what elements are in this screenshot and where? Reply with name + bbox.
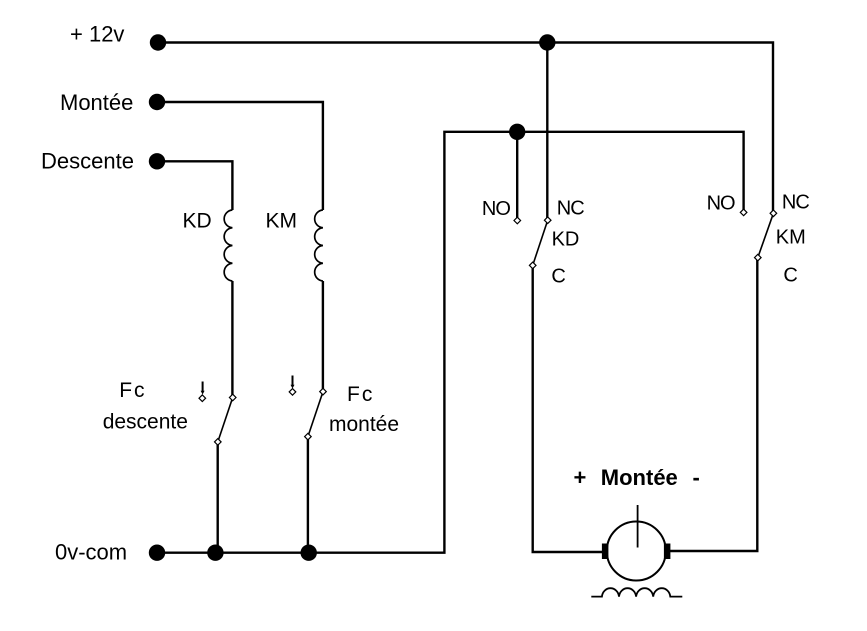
pin diamond Fc descente actuator	[199, 395, 206, 402]
switch Fc montée arm	[308, 392, 323, 437]
svg-text:+ 12v: + 12v	[70, 21, 124, 46]
wire +12v rail	[158, 43, 773, 214]
pin diamond KD NO	[514, 217, 521, 224]
motor M1 body	[607, 522, 666, 581]
svg-text:KD: KD	[552, 228, 580, 250]
wire 0v-com rail up and across to KM NO	[157, 132, 744, 553]
coil KM	[315, 210, 323, 281]
motor M1 shaft	[637, 505, 639, 548]
pin diamond Fc montée top	[320, 388, 327, 395]
wire KD C to motor left brush	[533, 265, 606, 552]
pin diamond Fc descente bottom	[215, 439, 222, 446]
svg-text:+: +	[574, 465, 587, 490]
wire KD NO stub	[516, 132, 518, 221]
svg-text:-: -	[693, 465, 700, 490]
svg-text:NO: NO	[482, 198, 510, 220]
node Montée terminal	[149, 94, 165, 110]
contact KM arm NC to C	[758, 213, 774, 257]
svg-text:KM: KM	[776, 226, 806, 248]
node Descente terminal	[149, 153, 165, 169]
node 0v-com terminal	[149, 545, 165, 561]
wire Fc descente switch to 0v junction	[216, 442, 218, 553]
wire Fc montée switch to 0v junction	[307, 437, 309, 553]
pin diamond KM C	[755, 254, 762, 261]
svg-text:0v-com: 0v-com	[55, 539, 127, 564]
svg-text:KD: KD	[183, 210, 212, 233]
wire Montée terminal to KM coil	[157, 102, 323, 210]
pin diamond Fc descente top	[229, 394, 236, 401]
junction 0v rail / KD NO	[509, 124, 525, 140]
pin diamond KM NO	[740, 209, 747, 216]
junction 0v rail / Fc montée	[301, 545, 317, 561]
pin diamond KD C	[529, 262, 536, 269]
node +12v terminal	[150, 34, 166, 50]
wire KM C to motor right brush	[667, 258, 757, 551]
wire KD coil to Fc descente switch	[231, 281, 233, 398]
svg-text:NC: NC	[557, 197, 584, 219]
svg-text:NO: NO	[707, 192, 735, 214]
wire KM coil to Fc montée switch	[322, 281, 324, 392]
svg-text:C: C	[783, 265, 797, 287]
coil KD	[224, 210, 232, 281]
pin diamond Fc montée bottom	[305, 433, 312, 440]
svg-text:descente: descente	[103, 410, 188, 433]
pin diamond KM NC	[770, 210, 777, 217]
svg-text:Fc: Fc	[119, 379, 146, 402]
svg-text:KM: KM	[266, 210, 298, 233]
actuator arrow Fc montée	[291, 376, 295, 389]
junction 0v rail / Fc descente	[207, 545, 223, 561]
pin diamond KD NC	[544, 217, 551, 224]
svg-text:NC: NC	[782, 192, 809, 214]
switch Fc descente arm	[218, 398, 233, 442]
svg-text:Fc: Fc	[347, 383, 374, 406]
pin diamond Fc montée actuator	[289, 389, 296, 396]
svg-text:Montée: Montée	[60, 90, 133, 115]
junction +12v / KD NC	[539, 34, 555, 50]
wire Descente terminal to KD coil	[157, 161, 232, 210]
svg-text:montée: montée	[329, 413, 399, 436]
contact KD arm NC to C	[533, 220, 548, 265]
svg-text:C: C	[551, 266, 565, 288]
motor M1 left brush	[602, 544, 609, 560]
svg-text:Montée: Montée	[601, 465, 678, 490]
inductor field winding	[591, 588, 682, 596]
wire KD NC drop from +12v	[546, 43, 548, 221]
svg-text:Descente: Descente	[41, 149, 134, 174]
actuator arrow Fc descente	[201, 382, 205, 395]
motor M1 right brush	[664, 544, 671, 560]
